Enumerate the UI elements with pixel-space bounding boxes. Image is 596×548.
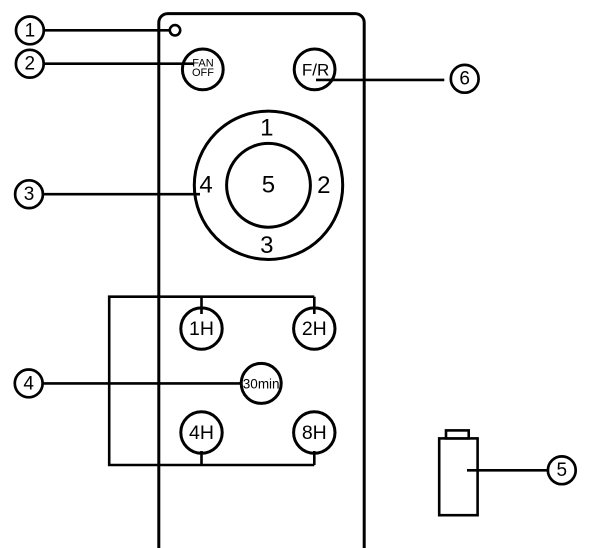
- svg-text:4: 4: [23, 373, 34, 394]
- svg-text:5: 5: [262, 171, 275, 198]
- svg-text:3: 3: [260, 232, 273, 259]
- button 30min: [241, 363, 281, 403]
- svg-text:2H: 2H: [302, 318, 327, 340]
- callout 4: [15, 370, 43, 398]
- svg-text:2: 2: [317, 172, 330, 199]
- stub bracket to 8H: [313, 451, 316, 465]
- leader line 2: [44, 62, 194, 65]
- button 2H: [294, 308, 335, 349]
- speed pad outer ring: [194, 111, 342, 259]
- button FAN OFF: [182, 49, 223, 90]
- callout 6: [451, 65, 479, 93]
- leader line 4: [43, 382, 241, 385]
- svg-text:F/R: F/R: [302, 60, 329, 79]
- svg-text:30min: 30min: [243, 376, 280, 391]
- remote body: [159, 14, 364, 548]
- svg-text:OFF: OFF: [192, 67, 214, 79]
- svg-text:1: 1: [260, 114, 273, 141]
- svg-text:3: 3: [24, 184, 35, 205]
- battery body: [439, 438, 477, 515]
- leader line 1: [44, 29, 170, 32]
- svg-text:4H: 4H: [189, 422, 214, 444]
- svg-text:6: 6: [459, 69, 470, 90]
- stub bracket to 1H: [200, 297, 203, 314]
- button F/R: [294, 49, 335, 90]
- callout 1: [16, 17, 44, 45]
- stub bracket to 4H: [200, 451, 203, 465]
- svg-text:2: 2: [25, 54, 36, 75]
- button 4H: [181, 412, 222, 453]
- speed pad inner circle: [227, 143, 311, 227]
- callout 3: [15, 180, 43, 208]
- leader line 6: [316, 79, 444, 82]
- svg-text:1: 1: [25, 20, 36, 41]
- svg-text:4: 4: [199, 172, 212, 199]
- button 8H: [294, 412, 335, 453]
- svg-text:8H: 8H: [302, 422, 327, 444]
- LED indicator: [170, 25, 180, 35]
- timer group bracket: [109, 297, 314, 465]
- stub bracket to 2H: [313, 297, 316, 314]
- leader line 5: [467, 469, 547, 472]
- battery terminal: [446, 430, 469, 438]
- svg-text:1H: 1H: [189, 318, 214, 340]
- callout 2: [16, 50, 44, 78]
- leader line 3: [43, 193, 200, 196]
- callout 5: [548, 456, 576, 484]
- svg-text:5: 5: [557, 460, 568, 481]
- button 1H: [181, 308, 222, 349]
